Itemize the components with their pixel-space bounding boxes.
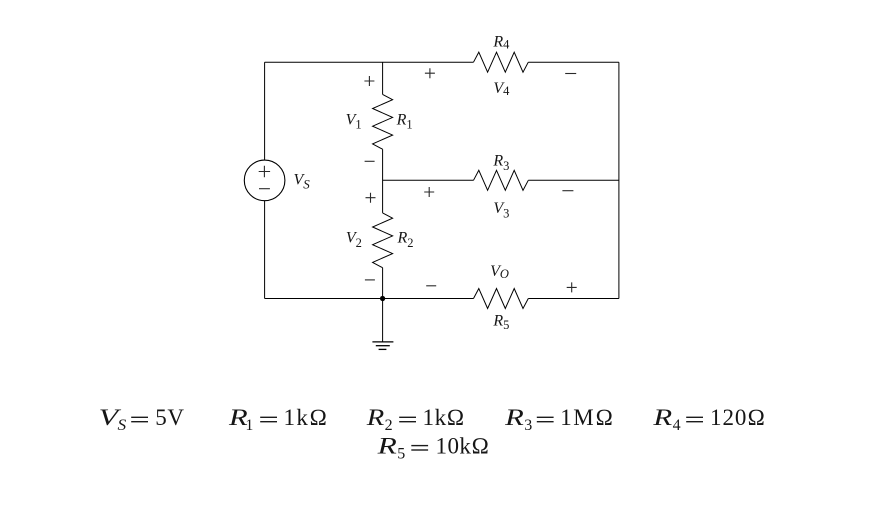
resistor R2 — [373, 213, 393, 268]
node junction dot — [380, 296, 385, 301]
V1 plus sign — [364, 76, 374, 86]
wire top-left horizontal — [265, 61, 474, 63]
svg-text:R5: R5 — [492, 313, 509, 332]
wire right vertical — [618, 62, 620, 298]
equation R3 = 1M ohm — [504, 405, 613, 434]
wire bottom-right horizontal — [528, 298, 619, 300]
V4 plus sign — [425, 68, 435, 78]
svg-text:R: R — [376, 433, 397, 458]
V2 minus sign — [365, 279, 375, 281]
svg-text:2: 2 — [385, 417, 393, 434]
V3 minus sign — [562, 190, 573, 192]
wire left vertical upper — [264, 62, 266, 160]
V1 minus sign — [365, 160, 375, 162]
svg-text:R2: R2 — [397, 230, 414, 251]
resistor R1 — [373, 94, 393, 149]
svg-text:VO: VO — [490, 263, 509, 281]
svg-text:3: 3 — [524, 417, 532, 434]
wire ground stem — [382, 299, 384, 342]
wire middle horizontal left — [383, 179, 474, 181]
svg-text:V1: V1 — [346, 112, 362, 132]
svg-text:R: R — [652, 405, 672, 430]
equation R2 = 1k ohm — [366, 405, 465, 434]
svg-text:5V: 5V — [155, 405, 184, 430]
wire left vertical lower — [264, 201, 266, 299]
resistor R3 — [474, 170, 529, 190]
svg-text:S: S — [118, 417, 127, 434]
equals bars — [131, 417, 703, 451]
svg-text:V4: V4 — [493, 80, 510, 98]
svg-text:V2: V2 — [346, 230, 362, 251]
VO plus sign — [567, 282, 577, 292]
wire middle branch bottom — [382, 268, 384, 299]
svg-text:V3: V3 — [493, 200, 509, 221]
svg-text:1MΩ: 1MΩ — [560, 405, 613, 430]
svg-text:R4: R4 — [492, 34, 510, 52]
equation R4 = 120 ohm — [652, 405, 765, 434]
equation R1 = 1k ohm — [228, 405, 327, 434]
svg-text:R: R — [504, 405, 524, 430]
wire middle horizontal right — [528, 179, 619, 181]
svg-text:1kΩ: 1kΩ — [284, 405, 328, 430]
equation VS = 5V — [99, 405, 185, 434]
wire middle branch top — [382, 62, 384, 94]
svg-text:10kΩ: 10kΩ — [436, 433, 490, 458]
svg-text:R3: R3 — [492, 152, 509, 173]
equation R5 = 10k ohm — [376, 433, 489, 462]
VO minus sign — [426, 285, 436, 287]
V4 minus sign — [565, 73, 576, 75]
V3 plus sign — [424, 187, 434, 197]
voltage source VS — [244, 160, 285, 201]
wire top-right horizontal — [528, 61, 619, 63]
svg-text:5: 5 — [397, 445, 405, 462]
svg-text:R: R — [366, 405, 385, 430]
svg-text:4: 4 — [673, 417, 681, 434]
svg-text:120Ω: 120Ω — [710, 405, 765, 430]
resistor R5 — [474, 289, 529, 309]
ground — [372, 342, 393, 350]
resistor R4 — [474, 52, 529, 72]
wire bottom-left horizontal — [265, 298, 474, 300]
svg-text:1: 1 — [245, 417, 253, 434]
svg-text:VS: VS — [294, 171, 311, 191]
svg-text:R1: R1 — [396, 112, 413, 132]
svg-text:1kΩ: 1kΩ — [423, 405, 465, 430]
wire middle branch middle — [382, 149, 384, 213]
V2 plus sign — [366, 193, 376, 203]
